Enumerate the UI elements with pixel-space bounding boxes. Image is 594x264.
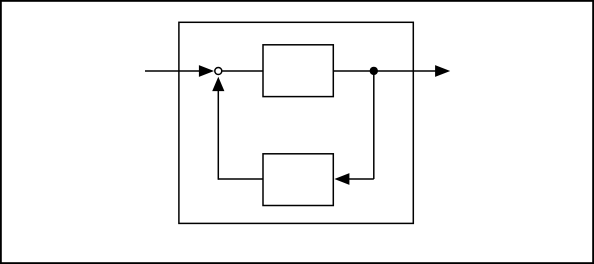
wire feedback block to corner — [218, 178, 263, 180]
wire forward block to output node — [333, 70, 374, 72]
system boundary box — [179, 22, 413, 223]
wire into feedback block — [334, 173, 373, 185]
wire output node down — [373, 71, 375, 179]
wire feedback up to summing junction — [212, 77, 224, 180]
wire output — [374, 65, 450, 77]
summing junction — [215, 68, 222, 75]
node output junction — [370, 67, 378, 75]
wire input — [145, 65, 214, 77]
forward block G — [263, 45, 333, 97]
wire summing junction to forward block — [222, 70, 263, 72]
feedback block H — [263, 154, 333, 206]
